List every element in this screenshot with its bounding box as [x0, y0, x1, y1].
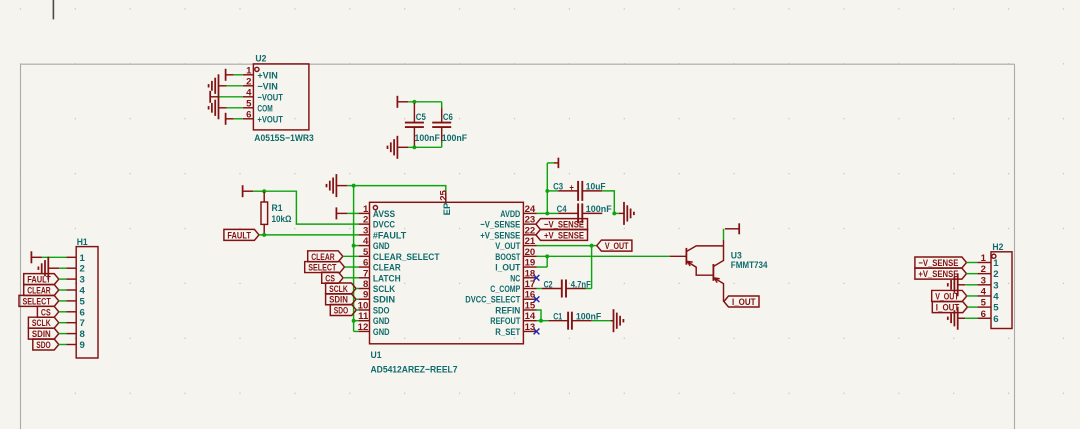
svg-text:AD5412AREZ−REEL7: AD5412AREZ−REEL7 — [371, 365, 458, 376]
svg-text:CLEAR_SELECT: CLEAR_SELECT — [373, 252, 440, 263]
wire H2 pin 6 — [965, 317, 977, 319]
svg-text:1: 1 — [981, 253, 987, 264]
wire -V_SENSE to H2 pin 1 — [967, 262, 978, 264]
wire BOOST to I_OUT vertical — [546, 256, 548, 267]
global label SDIN at U1 pin 9 — [326, 294, 356, 305]
global label I_OUT at U3 emitter — [724, 296, 759, 307]
H1 pin stubs — [67, 256, 77, 258]
svg-text:I_OUT: I_OUT — [936, 303, 960, 314]
transistor U3 Q2 emitter path — [713, 278, 723, 302]
svg-text:1: 1 — [80, 253, 86, 264]
svg-text:2: 2 — [981, 264, 986, 275]
sheet edge tick — [52, 0, 54, 19]
global label SCLK at H1 pin 7 — [28, 317, 58, 328]
transistor U3 Q2 base bar — [712, 264, 714, 281]
svg-text:7: 7 — [363, 268, 368, 279]
U2 pin-1 indicator circle — [255, 67, 259, 71]
wire top rail C5-C6 — [408, 101, 442, 103]
svg-text:6: 6 — [80, 307, 85, 318]
svg-text:REFIN: REFIN — [495, 305, 520, 316]
global label CS at U1 pin 7 — [322, 272, 343, 283]
svg-text:25: 25 — [438, 189, 449, 200]
global label SDO at U1 pin 10 — [330, 304, 356, 315]
wire I_OUT from pin 19 — [537, 266, 548, 268]
svg-text:SCLK: SCLK — [373, 284, 395, 295]
U1 EP pin 25 stub — [445, 193, 447, 203]
global label SDO at H1 pin 9 — [33, 339, 59, 350]
svg-text:AVDD: AVDD — [500, 209, 520, 220]
ground at H2 pin 6 — [957, 307, 959, 330]
junction BOOST — [545, 254, 549, 258]
svg-text:FMMT734: FMMT734 — [731, 260, 768, 271]
no-connect X at pin 18 (NC) — [534, 275, 540, 281]
wire GND bus vertical — [353, 186, 355, 332]
wire U2 pin4 — [219, 96, 243, 98]
wire GND to EP pin 25 — [354, 186, 446, 193]
wire AVDD vertical to C3 and power — [546, 163, 548, 214]
global label CLEAR at U1 pin 5 — [308, 251, 343, 262]
wire AVDD from pin 24 — [537, 212, 548, 214]
svg-text:6: 6 — [246, 109, 251, 120]
svg-text:C1: C1 — [553, 312, 562, 323]
svg-text:EP: EP — [442, 202, 453, 215]
global label FAULT at H1 pin 3 — [24, 274, 59, 285]
wire I_OUT to H2 pin 5 — [967, 306, 977, 308]
svg-text:+V_SENSE: +V_SENSE — [480, 230, 520, 241]
wire U2 pin1 — [234, 74, 243, 76]
junction GND at pin 11 — [352, 319, 356, 323]
svg-text:LATCH: LATCH — [373, 273, 401, 284]
svg-text:16: 16 — [525, 290, 536, 301]
U2 pin stubs — [243, 74, 254, 76]
global label V_OUT at U1 pin 21 — [597, 240, 632, 251]
svg-text:+VIN: +VIN — [257, 70, 277, 81]
svg-text:U1: U1 — [371, 350, 383, 361]
junction GND at pin 4 — [352, 244, 356, 248]
svg-text:9: 9 — [363, 290, 368, 301]
capacitor C1 — [548, 320, 568, 322]
svg-text:FAULT: FAULT — [227, 230, 251, 241]
svg-text:GND: GND — [373, 316, 390, 327]
svg-text:5: 5 — [993, 303, 999, 314]
global label CS at H1 pin 6 — [37, 306, 58, 317]
svg-text:SDO: SDO — [334, 305, 349, 316]
wire bottom rail C5-C6 — [408, 146, 442, 148]
svg-text:−VOUT: −VOUT — [257, 92, 283, 103]
svg-text:19: 19 — [525, 258, 536, 269]
svg-text:8: 8 — [363, 279, 369, 290]
svg-text:+V_SENSE: +V_SENSE — [918, 269, 958, 280]
svg-text:V_OUT: V_OUT — [495, 241, 520, 252]
svg-text:4: 4 — [993, 291, 999, 302]
wire SCLK to pin 8 — [356, 288, 359, 290]
svg-text:4: 4 — [80, 286, 86, 297]
svg-text:C2: C2 — [544, 279, 553, 290]
ground at U2 pin 2 (-VIN) — [218, 74, 220, 97]
svg-text:SDO: SDO — [36, 340, 51, 351]
wire FAULT to H1 pin 3 — [59, 278, 67, 280]
capacitor C4 — [547, 212, 558, 214]
wire SDO to H1 pin 9 — [59, 344, 67, 346]
svg-text:C5: C5 — [416, 112, 427, 123]
power bar at U1 pin 1 (AVSS) — [335, 207, 337, 219]
svg-text:1: 1 — [246, 65, 252, 76]
global label SELECT at U1 pin 6 — [305, 262, 345, 273]
power bar at H1 pin 1 — [30, 251, 32, 263]
global label +V_SENSE at H2 pin 2 — [915, 268, 967, 279]
svg-text:SDO: SDO — [373, 305, 390, 316]
svg-text:24: 24 — [525, 204, 536, 215]
ground right of C1 — [613, 309, 615, 332]
ground at U2 pin 5 (COM) — [218, 96, 220, 119]
wire C6 bottom corner — [441, 141, 443, 147]
power bar at U2 pin 1 (+VIN) — [225, 69, 227, 81]
svg-text:3: 3 — [363, 225, 368, 236]
svg-text:DVCC_SELECT: DVCC_SELECT — [465, 295, 520, 306]
junction bottom of C5 — [412, 145, 416, 149]
svg-text:22: 22 — [525, 225, 536, 236]
svg-text:4: 4 — [981, 286, 987, 297]
svg-text:23: 23 — [525, 215, 536, 226]
wire C_COMP from pin 17 — [537, 288, 543, 290]
svg-text:100nF: 100nF — [415, 133, 440, 144]
svg-text:REFOUT: REFOUT — [490, 316, 520, 327]
wire SELECT to H1 pin 5 — [59, 300, 67, 302]
svg-text:3: 3 — [981, 275, 986, 286]
wire REFIN from pin 15 — [537, 310, 542, 321]
U1 right pin stubs — [523, 212, 536, 214]
svg-text:11: 11 — [358, 311, 369, 322]
power bar at U2 pin 6 (+VOUT) — [225, 113, 227, 125]
svg-text:C4: C4 — [557, 204, 568, 215]
svg-text:R_SET: R_SET — [495, 327, 520, 338]
wire V_OUT from pin 21 — [537, 245, 592, 247]
svg-text:H1: H1 — [77, 237, 89, 248]
wire SELECT to pin 6 — [345, 266, 359, 268]
svg-text:V_OUT: V_OUT — [605, 241, 629, 252]
svg-text:6: 6 — [363, 258, 368, 269]
svg-text:5: 5 — [80, 296, 86, 307]
ground below C5 — [396, 136, 398, 159]
wire CLEAR to H1 pin 4 — [59, 289, 67, 291]
svg-text:3: 3 — [80, 275, 85, 286]
wire GND bus to pin 12 — [354, 330, 359, 332]
svg-text:5: 5 — [981, 298, 987, 309]
connector H1 outline — [76, 247, 98, 358]
transistor U3 Q1 emitter path — [686, 261, 713, 275]
svg-text:100nF: 100nF — [586, 204, 612, 215]
svg-text:C6: C6 — [443, 112, 453, 123]
svg-text:12: 12 — [358, 322, 369, 333]
resistor R1 — [263, 191, 265, 202]
wire R1 top — [253, 190, 264, 192]
svg-text:+: + — [569, 182, 574, 192]
wire V_OUT to H2 pin 4 — [967, 295, 978, 297]
junction AVDD at C3 — [545, 189, 549, 193]
svg-text:3: 3 — [993, 280, 998, 291]
svg-text:A0515S−1WR3: A0515S−1WR3 — [254, 133, 313, 144]
svg-text:+VOUT: +VOUT — [257, 114, 283, 125]
capacitor C2 — [542, 288, 562, 290]
svg-text:−V_SENSE: −V_SENSE — [480, 220, 520, 231]
capacitor C5 — [413, 103, 415, 123]
svg-text:6: 6 — [981, 309, 986, 320]
svg-text:2: 2 — [993, 269, 998, 280]
svg-text:4: 4 — [363, 236, 369, 247]
svg-text:GND: GND — [373, 327, 390, 338]
wire C3 right to C4 right — [602, 191, 614, 214]
wire H2 pin 3 — [965, 284, 977, 286]
global label -V_SENSE at H2 pin 1 — [915, 257, 967, 268]
svg-text:21: 21 — [525, 236, 536, 247]
svg-text:R1: R1 — [272, 203, 284, 214]
U1 left pin stubs — [359, 212, 370, 214]
transistor U3 Q1 base bar — [685, 248, 687, 265]
svg-text:6: 6 — [993, 314, 998, 325]
svg-text:+V_SENSE: +V_SENSE — [544, 230, 584, 241]
capacitor C6 — [441, 107, 443, 123]
svg-text:7: 7 — [80, 318, 85, 329]
global label SELECT at H1 pin 5 — [19, 295, 59, 306]
svg-text:5: 5 — [363, 247, 369, 258]
global label -V_SENSE at U1 pin 23 — [536, 219, 588, 230]
wire ground to EP — [347, 185, 353, 187]
junction REFOUT-REFIN — [539, 319, 543, 323]
junction GND node — [352, 184, 356, 188]
junction top of C5 — [412, 100, 416, 104]
wire V_OUT down to C_COMP — [591, 246, 593, 289]
svg-text:4: 4 — [246, 87, 252, 98]
wire CS to H1 pin 6 — [59, 311, 67, 313]
wire C6 top corner — [441, 102, 443, 109]
svg-text:8: 8 — [80, 329, 86, 340]
U1 pin-1 indicator circle — [373, 206, 377, 210]
global label CLEAR at H1 pin 4 — [24, 285, 59, 296]
capacitor C3 (polarized) — [547, 190, 558, 192]
transistor U3 Q2 collector path — [713, 246, 723, 267]
global label I_OUT at H2 pin 5 — [932, 302, 967, 313]
global label FAULT (net FAULT) — [224, 229, 259, 240]
H2 pin stubs — [977, 262, 991, 264]
power module U2 outline — [253, 64, 309, 130]
svg-text:C3: C3 — [553, 181, 563, 192]
svg-text:DVCC: DVCC — [373, 220, 395, 231]
no-connect X at pin 16 (DVCC_SELECT) — [534, 296, 540, 302]
wire C2 right to V_OUT vertical — [585, 288, 591, 290]
svg-text:20: 20 — [525, 247, 536, 258]
svg-text:CLEAR: CLEAR — [373, 263, 401, 274]
svg-text:10kΩ: 10kΩ — [272, 214, 292, 225]
power bar above C3 (AVDD) — [547, 162, 554, 164]
wire CLEAR to pin 5 — [343, 255, 359, 257]
ground at H1 pin 2 — [47, 257, 49, 280]
ground at H2 pin 3 — [957, 273, 959, 296]
svg-text:I_OUT: I_OUT — [495, 263, 520, 274]
svg-text:100nF: 100nF — [442, 133, 467, 144]
svg-text:BOOST: BOOST — [495, 252, 520, 263]
junction R1 bottom — [262, 233, 266, 237]
wire C1 right to ground — [592, 320, 611, 322]
svg-text:2: 2 — [363, 215, 368, 226]
transistor U3 collector rail to power — [723, 240, 725, 246]
sheet border frame — [21, 63, 1015, 65]
svg-text:#FAULT: #FAULT — [373, 230, 406, 241]
svg-text:−VIN: −VIN — [257, 81, 277, 92]
junction R1 top — [262, 189, 266, 193]
svg-text:−V_SENSE: −V_SENSE — [918, 258, 958, 269]
wire H1 pin 2 — [59, 267, 66, 269]
svg-text:13: 13 — [525, 322, 536, 333]
wire SDIN to H1 pin 8 — [59, 333, 67, 335]
wire SCLK to H1 pin 7 — [59, 322, 67, 324]
svg-text:10: 10 — [358, 300, 369, 311]
svg-text:2: 2 — [246, 76, 251, 87]
wire SDO to pin 10 — [356, 309, 358, 311]
wire C4 to ground — [614, 212, 619, 214]
transistor U3 Q1 collector path — [686, 246, 723, 252]
wire SDIN to pin 9 — [356, 298, 359, 300]
junction C4 right — [612, 211, 616, 215]
power bar above U3 — [738, 223, 740, 234]
wire AVSS — [347, 212, 359, 214]
svg-text:SDIN: SDIN — [373, 295, 395, 306]
no-connect X at pin 13 (R_SET) — [534, 329, 540, 335]
svg-text:1: 1 — [993, 258, 999, 269]
svg-text:GND: GND — [373, 241, 390, 252]
svg-text:5: 5 — [246, 98, 252, 109]
power bar above R1 — [242, 185, 244, 197]
wire U3 emitter to power bar — [723, 229, 725, 240]
svg-text:COM: COM — [257, 103, 272, 114]
svg-text:NC: NC — [510, 273, 520, 284]
global label SCLK at U1 pin 8 — [326, 283, 356, 294]
wire GND bus to pin 11 — [354, 320, 359, 322]
wire V_OUT junction to label — [592, 245, 597, 247]
junction V_OUT — [590, 244, 594, 248]
svg-text:H2: H2 — [992, 242, 1003, 253]
wire GND bus to pin 4 — [354, 245, 359, 247]
svg-text:AVSS: AVSS — [373, 209, 396, 220]
svg-text:9: 9 — [80, 340, 85, 351]
svg-text:C_COMP: C_COMP — [490, 284, 520, 295]
svg-text:U2: U2 — [255, 54, 266, 65]
wire U2 pin5 — [227, 107, 243, 109]
IC U1 outline — [370, 202, 524, 343]
global label SDIN at H1 pin 8 — [28, 328, 58, 339]
svg-text:2: 2 — [80, 264, 85, 275]
wire H1 pin 1 — [42, 256, 67, 258]
wire U2 pin2 — [227, 85, 243, 87]
wire U2 pin6 — [234, 118, 243, 120]
svg-text:14: 14 — [525, 311, 536, 322]
wire CS to pin 7 — [343, 277, 359, 279]
svg-text:I_OUT: I_OUT — [732, 297, 756, 308]
global label +V_SENSE at U1 pin 22 — [536, 229, 588, 240]
wire REFOUT from pin 14 — [537, 320, 549, 322]
power bar above C5 — [396, 96, 398, 108]
wire +V_SENSE to H2 pin 2 — [967, 273, 978, 275]
global label V_OUT at H2 pin 4 — [932, 290, 967, 301]
svg-text:V_OUT: V_OUT — [935, 291, 959, 302]
wire BOOST from pin 20 to U3 base — [537, 255, 670, 257]
ground right of C4 — [623, 202, 625, 225]
transistor U3 base wire — [670, 255, 687, 257]
connector H2 outline — [991, 252, 1012, 329]
wire FAULT to U1 pin 3 — [259, 234, 359, 236]
svg-text:1: 1 — [363, 204, 369, 215]
transistor U3 Q1 emitter arrow — [687, 261, 690, 266]
power bar at U2 pin 4 (-VOUT) — [209, 91, 211, 103]
wire DVCC from R1 to U1 pin 2 — [264, 191, 358, 224]
junction AVDD at C4 — [545, 211, 549, 215]
ground at U1 top (EP/GND net) — [335, 174, 337, 197]
transistor U3 Q2 emitter arrow — [714, 278, 717, 283]
H2 pin-1 indicator circle — [992, 254, 996, 258]
svg-text:18: 18 — [525, 268, 536, 279]
